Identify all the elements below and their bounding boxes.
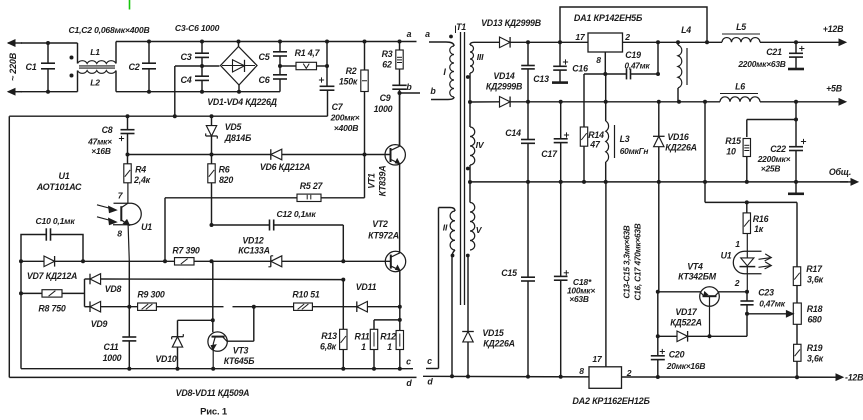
T1 phase dot IV <box>466 167 470 171</box>
svg-text:L4: L4 <box>681 25 691 35</box>
svg-text:L6: L6 <box>735 82 745 92</box>
capacitor C21 <box>794 40 798 44</box>
svg-text:47мк×: 47мк× <box>87 137 112 147</box>
wire DA1 pin2 out <box>623 41 723 43</box>
svg-text:U1: U1 <box>58 171 69 181</box>
svg-text:2: 2 <box>624 32 630 42</box>
resistor R8 <box>21 292 42 294</box>
resistor R17 <box>796 202 798 266</box>
svg-text:КТ645Б: КТ645Б <box>224 356 255 366</box>
svg-text:R8 750: R8 750 <box>38 304 65 314</box>
svg-text:R6: R6 <box>219 165 230 175</box>
svg-text:Общ.: Общ. <box>829 167 851 177</box>
svg-text:0,47мк: 0,47мк <box>759 299 785 309</box>
svg-text:~ 220В: ~ 220В <box>8 52 18 81</box>
capacitor C1 <box>47 43 49 63</box>
wire +12 raw rail <box>528 41 588 43</box>
wire U1 emitter column <box>128 261 130 337</box>
svg-text:R17: R17 <box>806 264 823 274</box>
diode VD14 <box>470 101 500 103</box>
svg-text:VD12: VD12 <box>242 236 264 246</box>
svg-text:VT1: VT1 <box>367 173 377 189</box>
svg-text:C14: C14 <box>505 128 521 138</box>
svg-text:R15: R15 <box>725 136 741 146</box>
svg-text:R1 4,7: R1 4,7 <box>295 48 321 58</box>
svg-text:R7 390: R7 390 <box>172 246 199 256</box>
svg-text:R19: R19 <box>807 343 823 353</box>
svg-text:1: 1 <box>735 239 740 249</box>
svg-text:+12В: +12В <box>823 24 844 34</box>
resistor R5 <box>165 197 297 199</box>
wire top rail after choke <box>116 41 417 43</box>
svg-text:C5: C5 <box>258 52 270 62</box>
wire C19 row <box>584 73 627 75</box>
diode VD13 <box>474 41 500 43</box>
svg-text:КТ839А: КТ839А <box>378 166 388 197</box>
wire bottom rail after choke <box>116 91 280 93</box>
svg-text:U1: U1 <box>721 251 732 261</box>
wire R18 wiper arrow <box>747 313 788 315</box>
svg-text:c: c <box>406 357 411 367</box>
U1 photo arrows <box>97 205 113 209</box>
svg-text:КТ972А: КТ972А <box>368 231 399 241</box>
capacitor C2 <box>148 42 150 64</box>
ground bar below common rail <box>795 182 797 194</box>
inductor L3 <box>605 74 607 121</box>
svg-text:C12 0,1мк: C12 0,1мк <box>276 209 316 219</box>
svg-text:47: 47 <box>589 140 601 150</box>
wire -12 raw rail <box>423 375 589 378</box>
svg-text:C2: C2 <box>128 62 139 72</box>
svg-text:820: 820 <box>219 175 233 185</box>
svg-text:VD16: VD16 <box>667 132 689 142</box>
wire VT4 collector node column <box>657 292 659 337</box>
svg-text:С3-С6 1000: С3-С6 1000 <box>175 23 220 33</box>
capacitor C11 <box>122 336 136 338</box>
svg-text:VD13 КД2999В: VD13 КД2999В <box>481 18 542 28</box>
svg-text:C13: C13 <box>533 74 549 84</box>
wire R15 top row <box>747 119 796 121</box>
svg-text:150к: 150к <box>339 77 358 87</box>
svg-text:КД2999В: КД2999В <box>486 82 523 92</box>
capacitor C19 <box>626 69 628 80</box>
wire VD8 VD9 bracket <box>84 279 86 307</box>
green margin mark <box>129 0 131 10</box>
optocoupler U1 LED side <box>733 251 761 273</box>
svg-text:VT4: VT4 <box>687 262 703 272</box>
inductor L4 <box>677 42 679 45</box>
svg-text:d: d <box>427 377 433 387</box>
ground bar C16 <box>552 81 568 84</box>
svg-text:L1: L1 <box>90 47 100 57</box>
svg-text:C16: C16 <box>572 64 588 74</box>
capacitor C9 <box>392 84 406 86</box>
svg-text:R13: R13 <box>321 331 337 341</box>
capacitor C10 loop <box>21 235 46 262</box>
svg-text:C3: C3 <box>180 52 191 62</box>
svg-text:8: 8 <box>579 366 584 376</box>
diode VD8 <box>85 278 91 280</box>
resistor R14 <box>583 74 585 127</box>
svg-text:C10 0,1мк: C10 0,1мк <box>35 216 75 226</box>
resistor R2 <box>364 42 366 71</box>
svg-text:VT3: VT3 <box>233 346 249 356</box>
resistor R19 <box>796 324 798 344</box>
T1 winding II <box>439 208 456 212</box>
wire d rail <box>9 376 416 378</box>
capacitor C6 <box>279 66 281 75</box>
wire control top rail <box>9 115 327 117</box>
inductor L6 <box>720 97 760 102</box>
wire down to control rail <box>174 66 176 116</box>
wire base drive rail <box>128 154 271 156</box>
diode VD11 <box>356 301 358 312</box>
resistor R1 <box>296 62 317 69</box>
resistor R13 <box>342 280 344 330</box>
svg-text:КД522А: КД522А <box>670 318 702 328</box>
svg-text:10: 10 <box>726 147 736 157</box>
capacitor C4 <box>201 66 203 76</box>
wire left border <box>8 116 10 377</box>
wire II bottom down <box>452 250 455 376</box>
svg-text:DA2 КР1162ЕН12Б: DA2 КР1162ЕН12Б <box>572 396 650 406</box>
T1 winding V <box>469 182 471 203</box>
svg-text:R18: R18 <box>807 304 823 314</box>
capacitor C20 <box>657 336 659 356</box>
capacitor C17 <box>560 102 562 139</box>
svg-text:1000: 1000 <box>374 104 393 114</box>
capacitor C13 <box>527 42 529 65</box>
svg-text:R2: R2 <box>346 66 357 76</box>
svg-text:8: 8 <box>117 229 122 239</box>
svg-text:КД226А: КД226А <box>483 339 515 349</box>
mains input terminal top arrow <box>8 42 22 44</box>
wire +5 to feedback divider <box>704 102 706 203</box>
svg-text:VD15: VD15 <box>482 328 504 338</box>
svg-text:3,6к: 3,6к <box>807 275 824 285</box>
output -12V arrow <box>800 376 838 378</box>
svg-text:VD6 КД212А: VD6 КД212А <box>260 162 310 172</box>
T1 core <box>460 32 462 305</box>
svg-text:Рис. 1: Рис. 1 <box>200 407 228 418</box>
svg-text:680: 680 <box>807 315 821 325</box>
wire III bottom to VD14 tap <box>469 73 471 102</box>
svg-text:2200мк×: 2200мк× <box>757 154 791 164</box>
zener VD10 <box>178 319 213 321</box>
svg-text:U1: U1 <box>141 222 152 232</box>
svg-text:VD17: VD17 <box>675 307 698 317</box>
svg-text:R10 51: R10 51 <box>292 290 319 300</box>
svg-text:a: a <box>425 29 430 39</box>
capacitor C15 <box>527 182 529 277</box>
svg-text:C11: C11 <box>104 342 119 352</box>
resistor R10 <box>294 303 313 310</box>
svg-text:L5: L5 <box>736 22 746 32</box>
capacitor C7 <box>326 66 328 86</box>
svg-text:R14: R14 <box>588 130 604 140</box>
svg-text:d: d <box>406 378 412 388</box>
diode VD7 <box>44 256 55 267</box>
svg-text:R4: R4 <box>135 165 146 175</box>
svg-text:×25В: ×25В <box>761 164 781 174</box>
svg-text:a: a <box>407 29 412 39</box>
wire DA1 bypass loop <box>560 7 707 42</box>
diode VD16 <box>658 102 660 137</box>
T1 phase dot III <box>466 75 470 79</box>
svg-text:20мк×16В: 20мк×16В <box>666 361 706 371</box>
svg-text:C15: C15 <box>501 268 517 278</box>
wire bottom mains rail <box>21 91 78 93</box>
svg-text:3,6к: 3,6к <box>807 354 824 364</box>
svg-text:b: b <box>406 82 412 92</box>
svg-text:2200мк×63В: 2200мк×63В <box>737 59 785 69</box>
capacitor C5 <box>279 42 281 52</box>
transistor VT1 <box>385 145 405 165</box>
wire sense row <box>21 260 44 262</box>
wire c rail <box>21 368 413 370</box>
svg-text:АОТ101АС: АОТ101АС <box>36 182 82 192</box>
T1 phase dot I <box>449 35 453 39</box>
choke phase dots <box>70 56 74 60</box>
svg-text:1: 1 <box>387 342 392 352</box>
svg-text:+5В: +5В <box>826 84 843 94</box>
transistor VT4 <box>700 287 720 307</box>
svg-text:C9: C9 <box>380 93 391 103</box>
capacitor C23 <box>740 300 753 302</box>
U1 LED emission arrows <box>759 258 771 260</box>
terminal b left <box>400 92 421 94</box>
diode VD17 <box>658 335 677 337</box>
svg-text:60мкГн: 60мкГн <box>620 146 649 156</box>
svg-text:VD7 КД212А: VD7 КД212А <box>27 271 77 281</box>
wire node up to top rail <box>326 42 328 67</box>
svg-text:2,4к: 2,4к <box>133 175 151 185</box>
regulator DA2 <box>589 367 622 389</box>
resistor R3 <box>399 42 401 51</box>
svg-text:R11: R11 <box>355 332 370 342</box>
svg-text:0,47мк: 0,47мк <box>625 62 651 71</box>
svg-text:C23: C23 <box>758 288 774 298</box>
svg-text:2: 2 <box>734 278 740 288</box>
T1 phase dot V <box>466 254 470 258</box>
svg-text:c: c <box>427 356 432 366</box>
zener VD5 <box>211 116 213 125</box>
svg-text:R3: R3 <box>382 49 393 59</box>
svg-text:C21: C21 <box>766 47 782 57</box>
wire common rail <box>470 181 848 183</box>
capacitor C16 <box>559 42 561 66</box>
svg-text:R5 27: R5 27 <box>300 181 324 191</box>
svg-text:1к: 1к <box>754 224 764 234</box>
choke L1 winding <box>77 43 79 64</box>
svg-text:R16: R16 <box>753 214 769 224</box>
svg-text:1: 1 <box>361 342 366 352</box>
wire C5 node to R1 <box>280 65 296 67</box>
wire +5 raw rail <box>528 101 720 103</box>
wire VT2 emitter column <box>399 270 401 306</box>
capacitor C3 <box>201 42 203 54</box>
svg-text:C22: C22 <box>770 144 786 154</box>
wire gap segment to R10 <box>233 306 294 308</box>
zener VD12 <box>270 256 272 267</box>
diode VD9 <box>85 306 91 308</box>
bridge rectifier VD1-VD4 <box>221 47 258 86</box>
svg-text:R9 300: R9 300 <box>137 290 164 300</box>
svg-text:8: 8 <box>596 55 601 65</box>
svg-text:200мк×: 200мк× <box>330 113 360 123</box>
svg-text:C1,C2 0,068мк×400В: C1,C2 0,068мк×400В <box>69 25 150 35</box>
svg-text:С13-С15 3,3мк×63В: С13-С15 3,3мк×63В <box>623 225 632 298</box>
svg-text:C8: C8 <box>102 125 113 135</box>
svg-text:VD1-VD4 КД226Д: VD1-VD4 КД226Д <box>207 97 277 107</box>
T1 winding IV <box>469 102 471 127</box>
resistor R4 <box>124 164 131 183</box>
wire DA1 pin8 <box>604 52 606 74</box>
resistor R15 <box>746 120 748 138</box>
terminal c T1 side <box>426 368 439 370</box>
svg-text:VD8-VD11 КД509А: VD8-VD11 КД509А <box>176 388 250 398</box>
ground bar C21 <box>788 68 804 71</box>
svg-text:T1: T1 <box>456 22 466 32</box>
capacitor C22 <box>795 102 797 147</box>
svg-text:VD5: VD5 <box>225 122 242 132</box>
svg-text:1000: 1000 <box>103 353 122 363</box>
diode VD15 <box>467 255 469 332</box>
wire VT1 column <box>399 93 401 146</box>
T1 phase dot II <box>451 254 455 258</box>
svg-text:L3: L3 <box>620 134 630 144</box>
T1 winding III <box>470 42 474 45</box>
wire II top to terminal c <box>438 208 440 369</box>
svg-text:-12В: -12В <box>845 373 863 383</box>
wire top mains rail <box>21 42 78 44</box>
diode VD6 <box>270 149 272 160</box>
svg-text:17: 17 <box>592 354 603 364</box>
svg-text:C4: C4 <box>180 75 191 85</box>
wire VT3 collector to R10 node <box>227 340 254 342</box>
potentiometer R18 <box>796 286 798 304</box>
resistor R16 <box>746 202 748 213</box>
svg-text:C6: C6 <box>258 75 270 85</box>
svg-text:III: III <box>477 52 484 62</box>
wire DA2 pin17 to common <box>605 182 607 367</box>
transistor VT2 <box>385 251 405 271</box>
svg-text:Д814Б: Д814Б <box>224 133 251 143</box>
svg-text:VD14: VD14 <box>493 71 515 81</box>
capacitor C12 row <box>212 224 270 226</box>
svg-text:C17: C17 <box>541 149 558 159</box>
wire R8 node column <box>20 261 22 368</box>
svg-text:КД226А: КД226А <box>665 143 697 153</box>
wire R1 to node <box>317 65 328 67</box>
wire DA2 pin2 out <box>622 376 841 378</box>
svg-text:6,8к: 6,8к <box>320 342 337 352</box>
svg-text:×16В: ×16В <box>91 146 111 156</box>
svg-text:×400В: ×400В <box>334 123 359 133</box>
capacitor C18 <box>560 182 562 277</box>
capacitor C8 <box>127 116 129 130</box>
svg-text:L2: L2 <box>90 78 100 88</box>
choke core <box>79 65 115 67</box>
svg-text:C20: C20 <box>669 350 685 360</box>
wire VT4 row <box>658 291 701 293</box>
svg-text:VD10: VD10 <box>155 354 177 364</box>
inductor L5 <box>722 38 760 43</box>
output +12V arrow <box>796 41 841 43</box>
svg-text:R12: R12 <box>380 332 396 342</box>
svg-text:VD11: VD11 <box>356 282 377 292</box>
wire bridge AC left <box>175 65 220 67</box>
svg-text:b: b <box>430 86 436 96</box>
choke L2 winding <box>77 71 79 92</box>
svg-text:КС133А: КС133А <box>238 246 269 256</box>
output +5V arrow <box>796 101 841 103</box>
svg-text:C1: C1 <box>25 62 36 72</box>
resistor R6 <box>211 155 213 164</box>
output common arrow <box>840 181 853 183</box>
capacitor C14 <box>527 102 529 140</box>
mains input terminal bottom arrow <box>8 91 22 93</box>
transistor VT3 <box>212 261 214 332</box>
svg-text:VT2: VT2 <box>372 219 388 229</box>
T1 winding I <box>450 46 454 97</box>
wire IV bottom to common rail <box>469 165 471 182</box>
svg-text:C19: C19 <box>625 50 641 60</box>
resistor R12 <box>399 307 401 331</box>
svg-text:×63В: ×63В <box>569 294 589 304</box>
resistor R7 <box>175 258 195 265</box>
svg-text:DA1 КР142ЕН5Б: DA1 КР142ЕН5Б <box>574 13 643 23</box>
resistor R11 <box>374 319 400 321</box>
svg-text:VD8: VD8 <box>105 284 122 294</box>
svg-text:С16, С17 470мк×63В: С16, С17 470мк×63В <box>634 223 643 300</box>
svg-text:КТ342БМ: КТ342БМ <box>678 272 717 282</box>
svg-text:17: 17 <box>575 32 586 42</box>
svg-text:C7: C7 <box>332 102 344 112</box>
svg-text:62: 62 <box>382 60 392 70</box>
svg-text:VD9: VD9 <box>91 319 108 329</box>
resistor R9 <box>138 303 157 310</box>
regulator DA1 <box>588 33 623 52</box>
